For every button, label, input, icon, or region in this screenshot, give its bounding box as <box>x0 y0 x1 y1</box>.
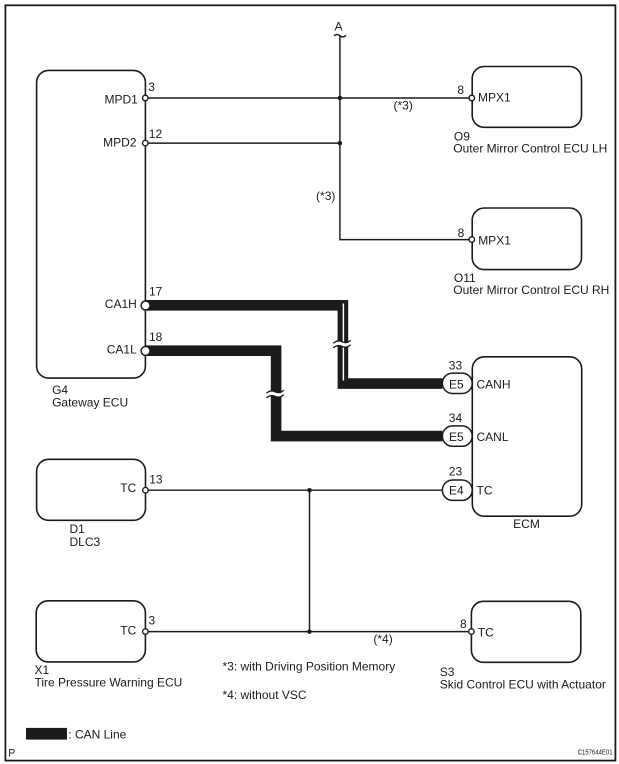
svg-text:P: P <box>8 748 15 760</box>
svg-text:12: 12 <box>149 127 163 141</box>
legend CAN line swatch <box>26 728 67 740</box>
svg-text:E5: E5 <box>449 377 464 391</box>
node A break tilde <box>334 34 346 36</box>
pin 3 MPD1 <box>143 95 149 101</box>
svg-text:CANL: CANL <box>477 430 509 444</box>
svg-text:A: A <box>334 19 342 33</box>
svg-text:MPD2: MPD2 <box>103 136 137 150</box>
svg-text:*4: without VSC: *4: without VSC <box>223 688 307 702</box>
svg-text:C157644E01: C157644E01 <box>578 748 613 757</box>
svg-text:DLC3: DLC3 <box>70 535 101 549</box>
svg-text:TC: TC <box>120 624 136 638</box>
pin 18 CA1L <box>141 346 150 355</box>
svg-text:Skid Control ECU with Actuator: Skid Control ECU with Actuator <box>440 678 606 692</box>
svg-text:(*3): (*3) <box>394 99 413 113</box>
CAN line CA1H thick <box>145 305 442 383</box>
svg-text:Tire Pressure Warning ECU: Tire Pressure Warning ECU <box>35 675 183 689</box>
svg-text:E5: E5 <box>449 430 464 444</box>
svg-text:ECM: ECM <box>513 517 540 531</box>
connector E5 pin 34 CANL <box>442 426 472 446</box>
junction MPD2/A <box>338 141 343 146</box>
svg-text:*3: with Driving Position Memo: *3: with Driving Position Memory <box>223 660 396 674</box>
svg-text:(*3): (*3) <box>316 189 335 203</box>
pin 12 MPD2 <box>143 140 149 146</box>
pin 3 X1 TC <box>143 629 149 635</box>
svg-text:(*4): (*4) <box>373 632 392 646</box>
svg-text:D1: D1 <box>70 522 86 536</box>
CAN line CA1H white seam <box>342 304 344 381</box>
svg-text:34: 34 <box>449 411 463 425</box>
wire MPD2 to node <box>145 142 340 144</box>
svg-text:E4: E4 <box>449 484 464 498</box>
pin 8 S3 TC <box>469 629 475 635</box>
break symbol on CA1L <box>266 390 283 398</box>
wire A vertical to O11 <box>340 35 472 239</box>
connector E5 pin 33 CANH <box>442 373 472 393</box>
svg-text:: CAN Line: : CAN Line <box>68 728 126 742</box>
pin 8 O11 <box>469 237 475 243</box>
svg-text:CA1H: CA1H <box>105 297 137 311</box>
ECU ECM box <box>472 357 581 516</box>
svg-text:Outer Mirror Control ECU LH: Outer Mirror Control ECU LH <box>453 141 607 155</box>
pin 17 CA1H <box>141 301 150 310</box>
svg-text:8: 8 <box>460 617 467 631</box>
svg-text:17: 17 <box>149 285 163 299</box>
svg-text:8: 8 <box>457 83 464 97</box>
ECU O9 box <box>472 67 581 128</box>
junction MPD1/A <box>338 96 343 101</box>
junction TC bottom <box>307 629 312 634</box>
svg-text:TC: TC <box>120 481 136 495</box>
svg-text:13: 13 <box>149 472 163 486</box>
svg-text:3: 3 <box>149 614 156 628</box>
wire TC branch vertical <box>309 490 311 631</box>
svg-text:23: 23 <box>449 465 463 479</box>
svg-text:CANH: CANH <box>477 377 511 391</box>
svg-text:MPX1: MPX1 <box>478 91 511 105</box>
svg-text:18: 18 <box>149 330 163 344</box>
CAN line CA1L thick <box>145 351 442 436</box>
ECU S3 box <box>471 601 580 662</box>
svg-text:8: 8 <box>458 226 465 240</box>
pin 13 D1 TC <box>143 487 149 493</box>
wire X1 TC to S3 TC <box>145 631 471 633</box>
connector D1 box <box>37 459 146 520</box>
break symbol on CA1H <box>333 340 350 348</box>
svg-text:MPD1: MPD1 <box>104 93 138 107</box>
svg-text:Gateway ECU: Gateway ECU <box>52 396 128 410</box>
svg-text:3: 3 <box>148 80 155 94</box>
svg-text:MPX1: MPX1 <box>478 233 511 247</box>
svg-text:TC: TC <box>478 625 494 639</box>
ECU O11 box <box>472 208 581 270</box>
svg-text:CA1L: CA1L <box>107 343 137 357</box>
pin 8 O9 <box>469 95 475 101</box>
wire MPD1 to O9 <box>145 97 472 99</box>
svg-text:TC: TC <box>477 484 493 498</box>
ECU X1 box <box>36 601 145 662</box>
ECU G4 box <box>37 70 146 378</box>
svg-text:33: 33 <box>449 359 463 373</box>
connector E4 pin 23 TC <box>442 480 472 500</box>
junction TC top <box>307 488 312 493</box>
wire D1 TC to ECM E4 <box>146 489 443 491</box>
svg-text:Outer Mirror Control ECU RH: Outer Mirror Control ECU RH <box>453 283 609 297</box>
